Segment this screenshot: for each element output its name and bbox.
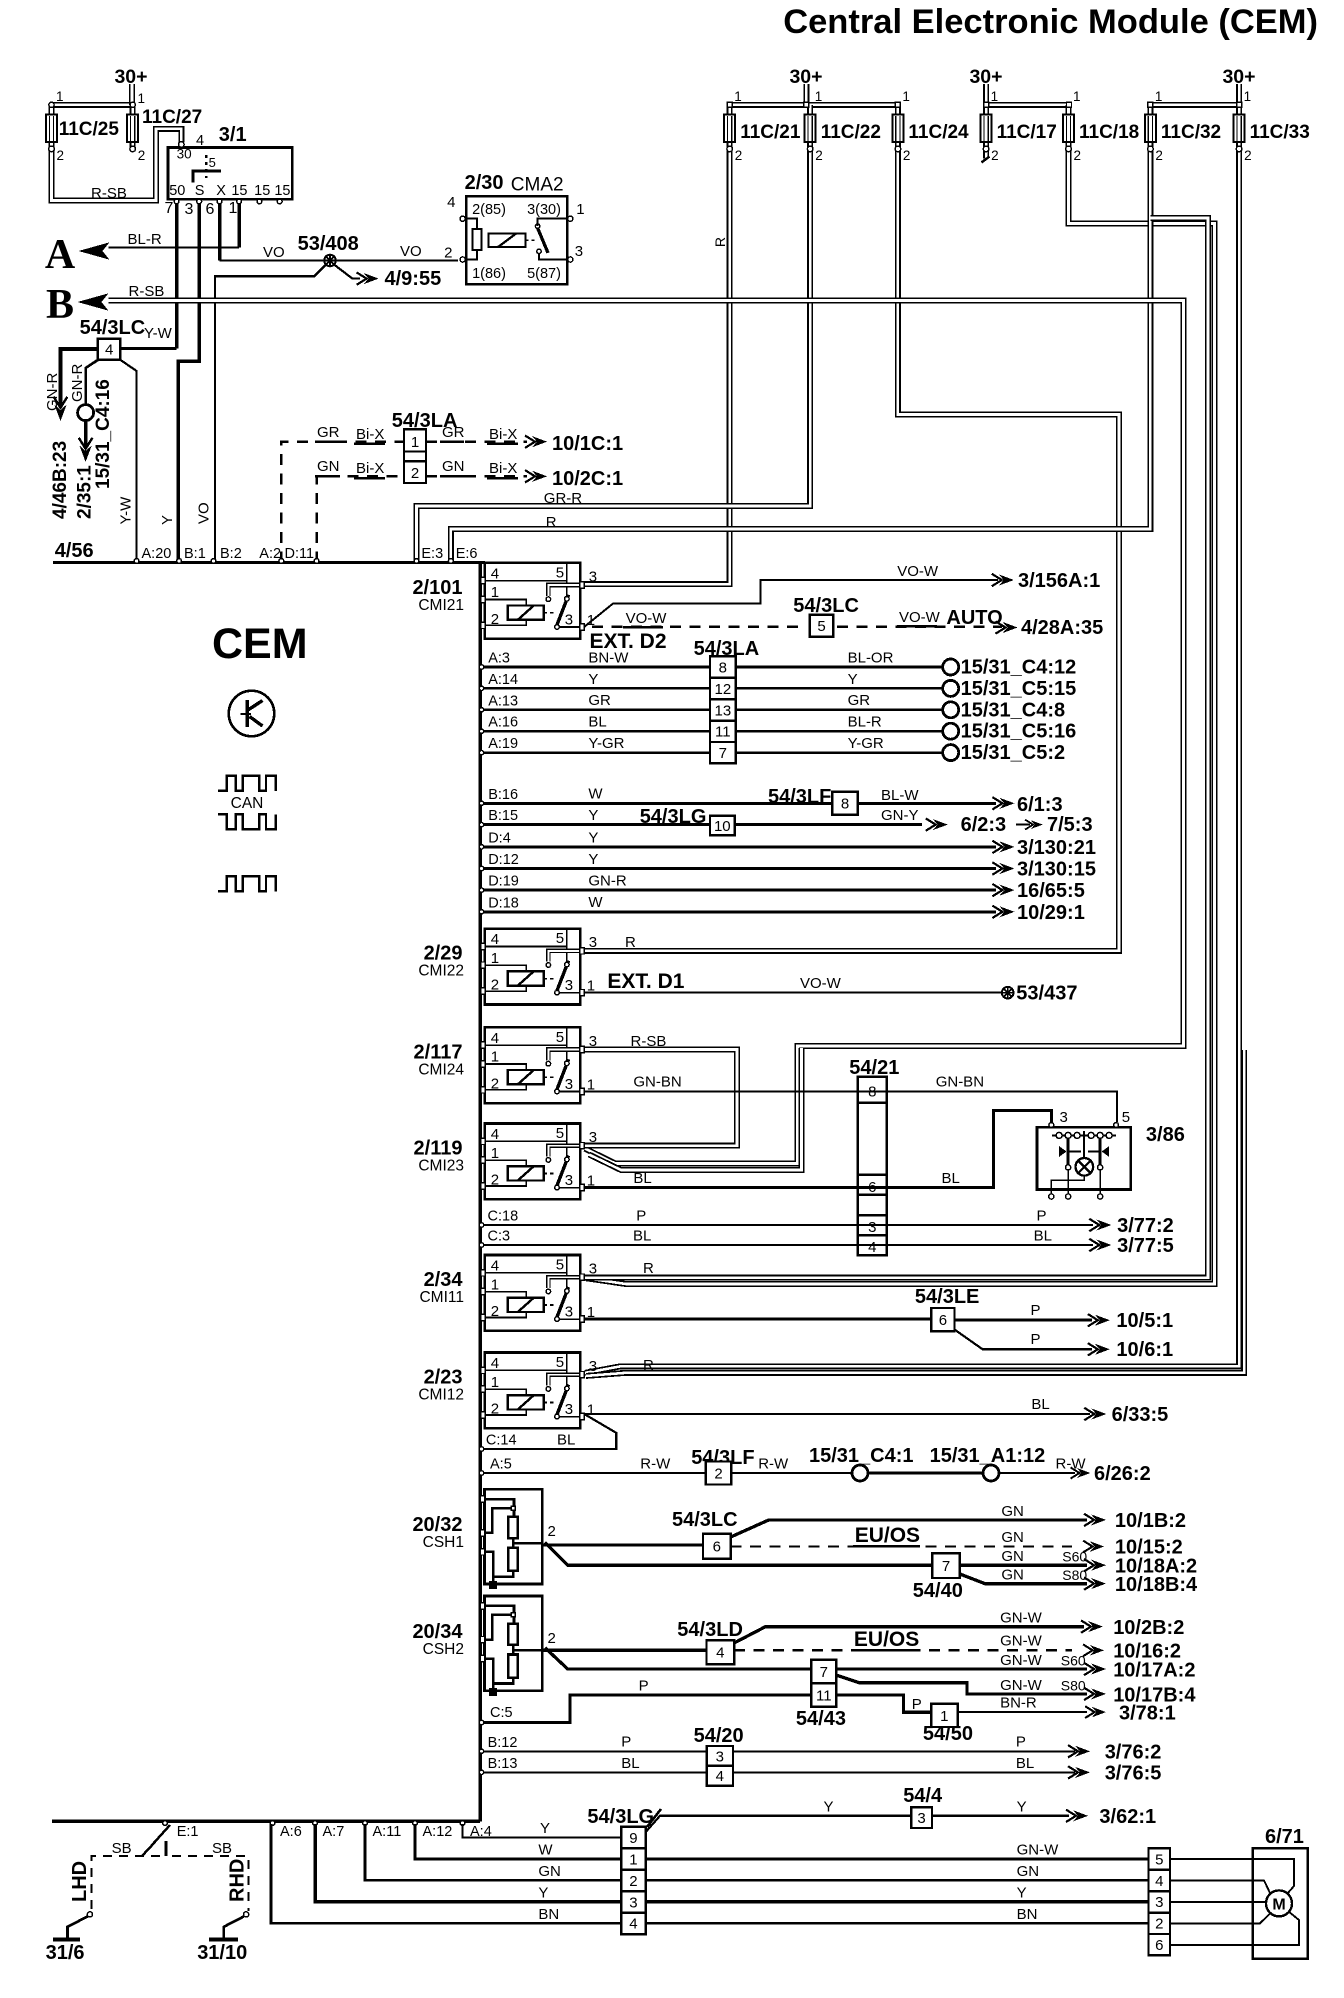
wire R from fuse 11C/24 to 2/29 pin 3 (584, 149, 1119, 951)
svg-text:6: 6 (206, 201, 215, 218)
wire R from fuse 11C/21 to 2/101 pin 3 (584, 149, 730, 584)
svg-text:R-SB: R-SB (91, 185, 127, 202)
dashed wire SB to RHD switch (172, 1856, 248, 1911)
svg-text:C:18: C:18 (488, 1209, 519, 1225)
svg-text:VO-W: VO-W (800, 975, 842, 992)
svg-text:R: R (643, 1357, 654, 1374)
svg-text:GN-BN: GN-BN (633, 1074, 681, 1091)
wire GN from CEM A:11 to 54/3LG 2 (365, 1824, 621, 1880)
svg-text:4: 4 (196, 133, 204, 149)
svg-text:3: 3 (185, 201, 194, 218)
svg-text:11C/21: 11C/21 (740, 122, 801, 143)
svg-text:1: 1 (587, 978, 595, 995)
svg-text:R-W: R-W (1056, 1455, 1087, 1472)
svg-text:4/56: 4/56 (55, 540, 94, 562)
svg-text:VO: VO (400, 243, 422, 260)
svg-text:10/18B:4: 10/18B:4 (1115, 1574, 1198, 1596)
svg-text:GN: GN (1001, 1548, 1024, 1565)
svg-text:D:19: D:19 (488, 874, 519, 890)
svg-text:6: 6 (713, 1539, 721, 1556)
dashed wire VO-W from 2/101 pin 1 to 4/28A:35 (592, 626, 806, 628)
svg-text:5: 5 (556, 1257, 564, 1274)
relay 2/30 internals (463, 219, 477, 260)
svg-text:2: 2 (991, 148, 999, 163)
symbol CAN square wave 2 (218, 814, 276, 829)
dashed wire GR Bi-X to 10/1C:1 (426, 441, 527, 443)
fuse 11C/33 (1234, 105, 1245, 152)
svg-text:4/9:55: 4/9:55 (385, 268, 442, 290)
svg-text:2: 2 (714, 1465, 722, 1482)
wire GN S60 from 54/40 to 10/18A:2 (960, 1564, 1087, 1567)
svg-text:54/3LD: 54/3LD (677, 1619, 743, 1641)
fuse 11C/32 (1145, 105, 1156, 152)
svg-text:Y-GR: Y-GR (588, 735, 624, 752)
svg-text:P: P (1037, 1207, 1047, 1224)
dashed wire GN-W EU/OS from 54/3LD to 10/16:2 (734, 1649, 1072, 1651)
module 2/34 CMI11 connector box (485, 1255, 580, 1331)
svg-text:BL: BL (557, 1431, 575, 1448)
svg-text:1(86): 1(86) (472, 266, 506, 282)
svg-text:Y-W: Y-W (144, 325, 173, 342)
svg-text:11C/33: 11C/33 (1250, 122, 1310, 143)
wire Y from CEM D:4 to 3/130:21 (482, 845, 996, 848)
wire Y from CEM A:14 to terminal 15/31_C5:15 (482, 687, 942, 690)
fuse 11C/22 (805, 105, 816, 152)
switch LHD (87, 1912, 92, 1917)
svg-text:GR: GR (442, 424, 465, 441)
svg-text:CMI23: CMI23 (418, 1158, 464, 1175)
svg-text:11: 11 (816, 1687, 832, 1704)
svg-text:3/78:1: 3/78:1 (1119, 1703, 1176, 1725)
svg-text:GN: GN (442, 458, 465, 475)
svg-text:D:18: D:18 (488, 895, 519, 911)
svg-text:SB: SB (112, 1840, 132, 1857)
svg-text:B:16: B:16 (488, 787, 518, 803)
svg-text:5: 5 (556, 930, 564, 947)
svg-text:E:3: E:3 (421, 546, 443, 562)
svg-text:R-W: R-W (758, 1455, 789, 1472)
wire P from 2/34 pin 1 to 54/3LE and 10/5:1 (584, 1318, 931, 1321)
wire Y from CEM A:7 to 54/3LG 3 (315, 1824, 621, 1902)
wire VO-W from 2/101 pin 1 to 3/156A:1 (584, 580, 998, 627)
svg-text:8: 8 (719, 660, 727, 677)
svg-text:B:13: B:13 (488, 1756, 518, 1772)
ignition switch 3/1 (168, 148, 292, 200)
module 2/34 hook from pin 3 to switch contact (548, 1277, 580, 1288)
svg-text:A:14: A:14 (488, 672, 518, 688)
svg-text:8: 8 (841, 796, 849, 813)
svg-text:VO-W: VO-W (899, 609, 941, 626)
svg-text:2: 2 (548, 1630, 556, 1647)
wire R from fuse 11C/32 to CEM pin E:6 (451, 149, 1151, 563)
bus 30+ feeding 11C/32 11C/33 (1150, 102, 1239, 108)
svg-text:GR: GR (317, 424, 340, 441)
wire Y from 54/3LG 9 to 3/62:1 via 54/4 (646, 1816, 912, 1832)
wire Y from CEM D:12 to 3/130:15 (482, 867, 996, 870)
svg-text:1: 1 (587, 1402, 595, 1419)
svg-text:Y: Y (588, 829, 598, 846)
module 2/117 hook from pin 3 to switch contact (548, 1050, 580, 1061)
module 2/23 coil (485, 1389, 556, 1415)
svg-text:4: 4 (491, 1355, 499, 1372)
wire Y from 3/1 pin S to CEM pin B:1 (178, 204, 199, 563)
wire GN from 20/32 pin 2 to 54/3LC 6 (542, 1543, 703, 1546)
svg-text:X: X (216, 183, 226, 199)
svg-text:VO: VO (196, 502, 213, 524)
svg-text:Y: Y (588, 807, 598, 824)
svg-text:C:3: C:3 (488, 1229, 511, 1245)
heater module 20/34 pin squares (480, 1603, 484, 1609)
CEM top edge line 4/56 (53, 561, 485, 564)
dashed wire GR from CEM A:2 to 54/3LA pin 1 (281, 442, 404, 563)
svg-text:10: 10 (714, 818, 731, 835)
fuse 11C/27 (127, 105, 138, 152)
svg-text:54/43: 54/43 (796, 1708, 846, 1730)
wire W from CEM A:12 to 54/3LG 1 (415, 1824, 621, 1859)
svg-text:1: 1 (815, 89, 823, 104)
module 2/119 CMI23 connector box (485, 1124, 580, 1200)
wire Y from CEM A:4 to 54/3LG 9 (463, 1824, 622, 1838)
svg-text:R: R (643, 1260, 654, 1277)
wire Y from 54/3LG 3 to 6/71 3 (646, 1900, 1149, 1904)
svg-text:2/23: 2/23 (424, 1367, 463, 1389)
motor module 6/71 (1170, 1848, 1308, 1958)
svg-text:2: 2 (491, 977, 499, 994)
svg-text:CMI21: CMI21 (418, 597, 464, 614)
svg-text:15/31_C4:8: 15/31_C4:8 (961, 699, 1066, 721)
svg-text:3: 3 (565, 1076, 573, 1093)
svg-text:3: 3 (565, 977, 573, 994)
svg-text:3: 3 (575, 243, 583, 260)
svg-text:P: P (1016, 1734, 1026, 1751)
ignition switch 3/1 key symbol (193, 171, 221, 183)
svg-text:11C/25: 11C/25 (59, 119, 120, 140)
svg-text:1: 1 (940, 1708, 948, 1725)
svg-text:R: R (625, 934, 636, 951)
svg-text:31/10: 31/10 (197, 1942, 247, 1964)
svg-text:A:13: A:13 (488, 693, 518, 709)
wire GN from 54/3LG 2 to 6/71 4 (646, 1879, 1149, 1882)
terminal 15/31_A1:12 (983, 1465, 999, 1481)
svg-text:2: 2 (629, 1873, 637, 1890)
module 2/29 coil (485, 965, 556, 991)
svg-text:1: 1 (1073, 89, 1081, 104)
ground 31/10 (209, 1938, 238, 1942)
svg-text:3: 3 (589, 934, 597, 951)
svg-text:GN: GN (1001, 1567, 1024, 1584)
CEM bottom edge (52, 1820, 480, 1824)
svg-text:3: 3 (565, 1172, 573, 1189)
svg-text:3: 3 (917, 1810, 925, 1827)
svg-text:13: 13 (715, 702, 732, 719)
bus 30+ feeding 11C/25 11C/27 (52, 102, 133, 108)
svg-text:11C/27: 11C/27 (142, 107, 202, 128)
wire BL from CEM C:3 to 3/77:5 (482, 1244, 1093, 1246)
svg-text:BL: BL (588, 714, 606, 731)
svg-text:54/40: 54/40 (913, 1580, 963, 1602)
svg-text:P: P (621, 1734, 631, 1751)
wire R-SB from 2/117 pin 3 to 2/119 pin 3 (584, 1050, 737, 1146)
svg-text:Y: Y (1017, 1798, 1027, 1815)
svg-text:3/130:21: 3/130:21 (1017, 837, 1096, 859)
svg-text:15/31_C4:1: 15/31_C4:1 (809, 1445, 914, 1467)
svg-text:Y: Y (588, 851, 598, 868)
wire GN-R from 54/3LC 4 down to 4/46B:23 (61, 349, 98, 406)
svg-text:1: 1 (491, 1049, 499, 1066)
wire BN-W from CEM A:3 to terminal 15/31_C4:12 (482, 666, 942, 669)
svg-text:BL: BL (633, 1227, 651, 1244)
module 2/23 pin squares (481, 1367, 485, 1373)
svg-text:EU/OS: EU/OS (854, 1628, 919, 1651)
wire BL branch from 2/23 pin 1 to CEM C:14 (482, 1414, 616, 1449)
svg-text:2: 2 (735, 148, 743, 163)
svg-text:2/30: 2/30 (465, 172, 504, 194)
lamp module 3/86 top pins (1049, 1123, 1054, 1128)
svg-text:2: 2 (491, 1303, 499, 1320)
wire W from CEM D:18 to 10/29:1 (482, 910, 996, 913)
wire Y-GR from CEM A:19 to terminal 15/31_C5:2 (482, 751, 942, 754)
module 2/101 hook from pin 3 to switch contact (548, 585, 580, 596)
svg-text:2: 2 (1155, 1916, 1163, 1933)
svg-text:3: 3 (1060, 1109, 1068, 1126)
svg-text:S60: S60 (1061, 1653, 1086, 1669)
svg-text:4/46B:23: 4/46B:23 (50, 441, 71, 519)
svg-text:C:5: C:5 (490, 1705, 513, 1721)
svg-text:4: 4 (629, 1916, 637, 1933)
svg-text:Y: Y (159, 515, 176, 525)
svg-text:4: 4 (491, 1030, 499, 1047)
module 2/101 pin squares (481, 577, 485, 583)
wire P from CEM B:12 to 3/76:2 (482, 1750, 1075, 1752)
wire BL-R from 3/1 pin 15 to arrow A (237, 204, 241, 248)
svg-text:54/3LG: 54/3LG (587, 1806, 654, 1828)
dashed wire GN EU/OS from 54/3LC 6 to 10/15:2 (731, 1545, 1072, 1547)
svg-text:BN-R: BN-R (1000, 1695, 1037, 1712)
module 2/29 CMI22 connector box (485, 929, 580, 1005)
svg-text:20/32: 20/32 (412, 1514, 462, 1536)
svg-text:53/437: 53/437 (1016, 983, 1077, 1005)
svg-text:SB: SB (212, 1840, 232, 1857)
svg-text:8: 8 (868, 1083, 876, 1100)
svg-text:6/26:2: 6/26:2 (1094, 1463, 1151, 1485)
splice 53/408 (324, 255, 336, 267)
svg-text:10/29:1: 10/29:1 (1017, 902, 1085, 924)
svg-text:C:14: C:14 (486, 1433, 517, 1449)
svg-text:30: 30 (177, 147, 192, 162)
wire P from 54/3LE to 10/6:1 (955, 1330, 1093, 1350)
svg-text:15I: 15I (274, 183, 294, 199)
svg-text:1: 1 (629, 1851, 637, 1868)
svg-text:1: 1 (491, 1374, 499, 1391)
wire R partner branch into 2/23 pin 3 (586, 1050, 1244, 1376)
svg-text:E:6: E:6 (456, 546, 478, 562)
svg-text:1: 1 (587, 1076, 595, 1093)
svg-text:CAN: CAN (231, 795, 264, 812)
wire GN S80 from 54/40 to 10/18B:4 (960, 1574, 1087, 1584)
svg-text:R: R (546, 514, 557, 531)
svg-text:5: 5 (209, 155, 216, 170)
bus 30+ feeding 11C/21 11C/22 11C/24 (730, 102, 898, 108)
symbol CAN square wave 1 (218, 776, 276, 791)
svg-text:Central Electronic Module (CEM: Central Electronic Module (CEM) (783, 3, 1318, 41)
svg-text:Y: Y (588, 671, 598, 688)
svg-text:4/28A:35: 4/28A:35 (1021, 617, 1103, 639)
svg-text:4: 4 (491, 931, 499, 948)
svg-text:A: A (45, 232, 76, 278)
svg-text:3/76:2: 3/76:2 (1105, 1741, 1162, 1763)
svg-text:2: 2 (491, 611, 499, 628)
wire BL from CEM A:16 to terminal 15/31_C5:16 (482, 730, 942, 733)
svg-text:1: 1 (1155, 89, 1163, 104)
svg-text:5: 5 (817, 618, 825, 635)
svg-text:GN-Y: GN-Y (881, 807, 919, 824)
svg-text:11C/32: 11C/32 (1161, 122, 1221, 143)
svg-text:2: 2 (491, 1401, 499, 1418)
ignition switch 3/1 pin terminals (174, 199, 179, 204)
svg-text:BL: BL (1016, 1755, 1034, 1772)
wire GN-W from 20/34 pin 2 to 54/3LD 4 (542, 1649, 706, 1652)
svg-text:3: 3 (565, 1304, 573, 1321)
fuse 11C/17 (981, 105, 992, 152)
wire E:1 with connector slashes (164, 1841, 167, 1856)
svg-text:GN: GN (1001, 1529, 1024, 1546)
svg-text:2: 2 (411, 465, 419, 482)
svg-text:GN-W: GN-W (1000, 1610, 1042, 1627)
svg-text:CSH1: CSH1 (423, 1534, 464, 1551)
module 2/34 switch arm and contacts (546, 1287, 580, 1321)
svg-text:BN: BN (538, 1906, 559, 1923)
svg-text:3: 3 (589, 1033, 597, 1050)
wire BL from CEM B:13 to 3/76:5 (482, 1771, 1075, 1773)
svg-text:3/76:5: 3/76:5 (1105, 1762, 1162, 1784)
svg-text:31/6: 31/6 (46, 1942, 85, 1964)
svg-text:54/3LC: 54/3LC (672, 1509, 738, 1531)
svg-text:3: 3 (589, 1358, 597, 1375)
svg-text:10/17A:2: 10/17A:2 (1113, 1660, 1195, 1682)
terminal 15/31_C4:16 (78, 405, 94, 421)
svg-text:A:12: A:12 (423, 1824, 453, 1840)
svg-text:CEM: CEM (212, 620, 308, 668)
svg-text:2/117: 2/117 (414, 1041, 463, 1063)
svg-text:15: 15 (254, 183, 270, 199)
svg-text:4: 4 (716, 1768, 724, 1785)
heater module 20/32 CSH1 box (485, 1489, 543, 1589)
svg-text:3/156A:1: 3/156A:1 (1018, 570, 1100, 592)
svg-text:20/34: 20/34 (412, 1621, 463, 1643)
svg-text:Y: Y (538, 1884, 548, 1901)
svg-text:3: 3 (716, 1748, 724, 1765)
svg-text:1: 1 (56, 89, 64, 104)
wire P from CEM C:5 via 54/43 11 to 54/50 1 (482, 1695, 811, 1723)
svg-text:GN: GN (317, 458, 340, 475)
svg-text:Y: Y (1017, 1884, 1027, 1901)
svg-text:3: 3 (868, 1219, 876, 1236)
wire R-SB from arrow B to 2/119 pin 3 (109, 301, 1184, 1164)
svg-text:P: P (639, 1678, 649, 1695)
svg-text:2: 2 (57, 148, 65, 163)
svg-text:2/29: 2/29 (424, 943, 463, 965)
svg-text:1: 1 (576, 201, 584, 218)
CEM top edge pins (134, 559, 139, 564)
wire GN-W from 20/34 to 54/43 7 (545, 1648, 811, 1669)
wire GN from 54/3LC 6 to 10/1B:2 (731, 1520, 1087, 1537)
module 2/23 switch arm and contacts (546, 1385, 580, 1419)
svg-text:2/101: 2/101 (412, 577, 462, 599)
branch from splice 53/408 to 4/9:55 (334, 265, 360, 279)
svg-text:3: 3 (565, 1401, 573, 1418)
wire Y GN-Y from CEM B:15 to 6/2:3 and 7/5:3 (482, 823, 922, 826)
svg-text:1: 1 (991, 89, 999, 104)
svg-text:1: 1 (587, 1173, 595, 1190)
relay 2/30 CMA2 (466, 196, 567, 284)
svg-text:A:19: A:19 (488, 736, 518, 752)
svg-text:D:12: D:12 (488, 852, 519, 868)
svg-text:4: 4 (716, 1645, 724, 1662)
svg-text:B:2: B:2 (220, 546, 242, 562)
svg-text:Bi-X: Bi-X (489, 460, 517, 477)
svg-text:CMI22: CMI22 (418, 963, 464, 980)
svg-text:BN-W: BN-W (588, 649, 629, 666)
svg-text:R-SB: R-SB (631, 1033, 667, 1050)
svg-text:2: 2 (548, 1523, 556, 1540)
module 2/34 coil (485, 1292, 556, 1318)
svg-text:15/31_C4:12: 15/31_C4:12 (961, 657, 1077, 679)
fuse 11C/24 (892, 105, 903, 152)
svg-text:6: 6 (1155, 1937, 1163, 1954)
svg-text:2/119: 2/119 (414, 1138, 463, 1160)
dashed wire GN from CEM D:11 to 54/3LA pin 2 (317, 476, 404, 562)
wire from 3/1 pin 50 down to Y-W junction (175, 204, 179, 349)
fuse 11C/25 (46, 105, 57, 152)
svg-text:1: 1 (491, 584, 499, 601)
module 2/29 hook from pin 3 to switch contact (548, 951, 580, 962)
svg-text:GR: GR (588, 692, 611, 709)
svg-text:BL-R: BL-R (848, 714, 882, 731)
svg-text:GN: GN (538, 1863, 561, 1880)
wire Y-W from 54/3LC 4 to CEM pin A:20 (120, 360, 136, 563)
wire R from fuse 11C/18 to 2/34 pin 3 lower branch (586, 149, 1215, 1284)
module 2/119 hook from pin 3 to switch contact (548, 1146, 580, 1157)
wire R-W from CEM A:5 to 6/26:2 (482, 1472, 706, 1474)
svg-text:4: 4 (1155, 1873, 1163, 1890)
wire Y-W from 3/1 pin 50 to 54/3LC pin 4 (120, 347, 176, 350)
svg-text:7: 7 (820, 1664, 828, 1681)
wire VO from splice 53/408 to CEM pin B:2 (215, 265, 326, 563)
svg-text:BL-R: BL-R (128, 231, 162, 248)
svg-text:GN-R: GN-R (588, 873, 626, 890)
heater module 20/32 pin squares (480, 1496, 484, 1502)
svg-text:4: 4 (491, 565, 499, 582)
svg-text:4: 4 (868, 1239, 876, 1256)
svg-text:7: 7 (942, 1558, 950, 1575)
wire R-SB from 11C/25 pin 2 to 3/1 pin 4 (52, 129, 182, 201)
svg-text:1: 1 (587, 1304, 595, 1321)
svg-text:R-SB: R-SB (129, 283, 165, 300)
svg-text:15/31_C5:15: 15/31_C5:15 (961, 678, 1077, 700)
svg-text:VO-W: VO-W (897, 563, 939, 580)
svg-text:P: P (1031, 1302, 1041, 1319)
CEM right edge (479, 563, 482, 1822)
svg-text:9: 9 (629, 1830, 637, 1847)
svg-text:7: 7 (719, 745, 727, 762)
svg-text:Y: Y (824, 1798, 834, 1815)
svg-text:15/31_C4:16: 15/31_C4:16 (93, 379, 114, 489)
svg-text:3: 3 (589, 568, 597, 585)
svg-text:A:16: A:16 (488, 715, 518, 731)
svg-text:2: 2 (491, 1172, 499, 1189)
svg-text:2: 2 (491, 1075, 499, 1092)
wire BN from 54/3LG 4 to 6/71 2 (646, 1922, 1149, 1925)
